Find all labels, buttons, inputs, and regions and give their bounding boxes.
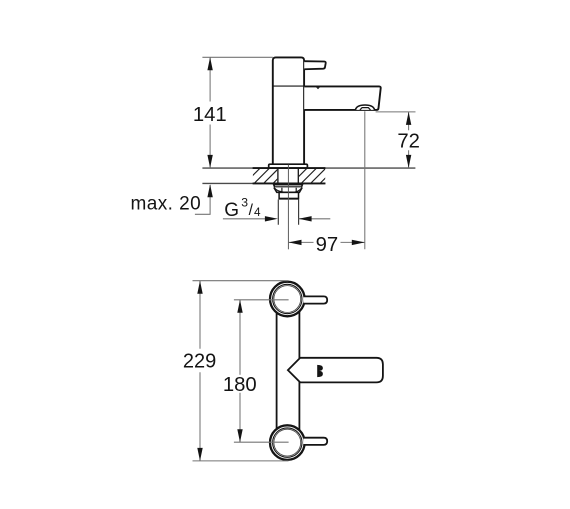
svg-text:G: G (224, 200, 239, 221)
svg-text:97: 97 (316, 234, 339, 256)
svg-text:4: 4 (254, 205, 261, 219)
svg-text:141: 141 (193, 104, 227, 126)
svg-text:3: 3 (241, 196, 248, 210)
svg-text:180: 180 (223, 374, 257, 396)
svg-text:229: 229 (183, 351, 216, 373)
svg-text:/: / (249, 202, 254, 219)
svg-text:max. 20: max. 20 (130, 194, 201, 215)
svg-text:72: 72 (397, 131, 420, 153)
